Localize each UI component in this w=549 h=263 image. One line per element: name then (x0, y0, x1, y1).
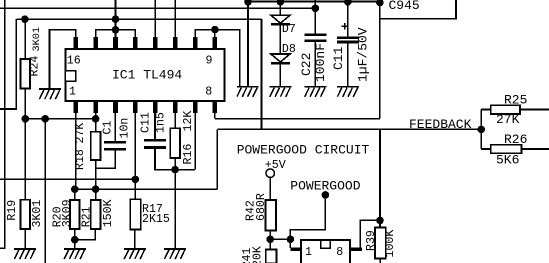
resistor R21 (91, 200, 101, 229)
wire H1 to R17 (134, 179, 136, 199)
resistor R39 (375, 227, 386, 258)
wire H2 horizontal y=189.2 (75, 188, 218, 190)
wire R25 left lead (481, 109, 491, 111)
capacitor C22 (304, 34, 326, 43)
wire pin4 down to H1 (134, 113, 136, 179)
resistor R41 (266, 250, 277, 263)
svg-text:IC1 TL494: IC1 TL494 (112, 68, 182, 83)
wire D feedback horizontal (217, 128, 481, 130)
resistor R26 (491, 145, 522, 154)
wire R18 junction down to H2 (95, 168, 97, 189)
wire R24 column top (24, 19, 26, 59)
wire pin12 vertical to top (154, 0, 156, 37)
svg-text:680R: 680R (255, 193, 268, 221)
svg-text:8: 8 (205, 85, 212, 98)
wire pin8 down (214, 113, 216, 119)
wire pin3 to C1 (114, 113, 116, 141)
node wire E pin2 (92, 115, 100, 123)
svg-text:3K01: 3K01 (31, 200, 44, 228)
svg-text:2K15: 2K15 (142, 213, 170, 226)
IC1 pin stubs bottom (74, 101, 218, 114)
ground C11 (337, 86, 359, 97)
node bridge1 (112, 26, 120, 34)
wire pin16 to ground (50, 30, 76, 89)
wire C11 column top (347, 2, 349, 37)
wire feedback column vertical (480, 110, 482, 150)
node wire E x45 (41, 115, 49, 123)
wire x=16 vertical to left exit (0, 19, 16, 109)
op-amp U2 comparator body (301, 240, 350, 263)
node wire B x115 (112, 15, 120, 23)
svg-text:C945: C945 (389, 0, 420, 13)
wire R20 top (74, 189, 76, 200)
ground pin16 (39, 88, 61, 99)
wire x=248 top to ground (247, 2, 249, 87)
resistor R24 (21, 59, 31, 89)
wire R20 bottom (74, 229, 76, 240)
wire pin2 to R18 (95, 113, 97, 132)
op-amp IC1 TL494 body (65, 49, 224, 101)
wire x=380 vertical (379, 2, 381, 119)
svg-text:R39: R39 (365, 230, 378, 251)
node powergood label (322, 191, 330, 199)
wire C pin8 feedback riser (215, 118, 380, 120)
wire pin5 to C1n5 (154, 113, 156, 139)
svg-text:R24: R24 (29, 56, 42, 77)
svg-text:8: 8 (336, 246, 343, 259)
svg-text:100K: 100K (384, 230, 397, 258)
wire bridge pins 10-9 (195, 30, 240, 87)
wire R42 bottom (269, 231, 271, 240)
svg-text:27K: 27K (74, 123, 87, 144)
wire y=19 to top right exit (380, 0, 456, 19)
wire pin7 down to wire G (194, 113, 196, 170)
ground D8 (269, 86, 291, 97)
wire R21 bottom joins R20 (75, 229, 96, 240)
wire R21 top (95, 189, 97, 200)
node H2 R21 (92, 185, 100, 193)
svg-text:3K09: 3K09 (61, 199, 74, 227)
wire R19 to ground (24, 229, 26, 249)
ground R16 net (164, 248, 186, 259)
node R24 top (21, 15, 29, 23)
node R20 R21 bottom (71, 236, 79, 244)
svg-text:1µF/50V: 1µF/50V (356, 27, 371, 82)
wire C22 to ground (314, 42, 316, 86)
node wire E left (22, 115, 30, 123)
resistor R20 (70, 200, 80, 229)
IC1 pin stubs top (74, 37, 218, 50)
node R42 bottom (266, 236, 274, 244)
svg-text:16: 16 (67, 54, 81, 67)
node feedback (477, 126, 485, 134)
svg-text:POWERGOOD: POWERGOOD (290, 178, 360, 193)
svg-text:9: 9 (206, 54, 213, 67)
wire x=45 to bottom edge (44, 119, 46, 263)
wire R25 right lead (520, 109, 549, 111)
wire R26 left lead (481, 148, 491, 150)
IC1 labels (67, 54, 213, 98)
svg-text:1: 1 (305, 246, 312, 259)
node wire A C22 (312, 5, 320, 13)
wire pin1 down to H2 (75, 113, 77, 189)
wire C22 column top (314, 0, 316, 34)
wire R17 to ground (134, 230, 136, 249)
wire pin14 stub to bridge (115, 30, 117, 37)
wire comparator pin8 riser (360, 220, 380, 248)
wire R39 bottom (379, 259, 381, 263)
wire pin6 to R16 (174, 113, 176, 128)
wire powergood bus (270, 238, 290, 240)
wire bridge pins 15-14-13 (96, 30, 136, 37)
capacitor C1 (104, 141, 126, 151)
node top C11 (344, 0, 352, 6)
svg-text:27K: 27K (496, 112, 520, 127)
resistor R19 (21, 200, 31, 229)
ground R17 (124, 248, 146, 259)
node bridge2 pin9 (211, 26, 219, 34)
node top x248 (244, 0, 252, 6)
node R39 top (376, 217, 384, 225)
svg-text:D7: D7 (282, 23, 296, 36)
node H1 R17 (132, 176, 140, 184)
wire C11 to ground (347, 43, 349, 86)
wire R16 bottom (174, 158, 176, 170)
svg-text:C22: C22 (299, 53, 314, 76)
wire powergood label riser (290, 195, 325, 239)
node top D7 (277, 0, 285, 6)
wire left vertical x=4.6 (0, 0, 5, 248)
wire R26 right lead (522, 148, 549, 150)
svg-text:R18: R18 (74, 149, 87, 170)
diode D8 (271, 54, 290, 62)
resistor R18 (91, 132, 101, 160)
svg-text:C1: C1 (102, 121, 115, 135)
svg-text:R25: R25 (504, 93, 527, 108)
wire H1 horizontal y=179.4 (0, 178, 135, 180)
comparator pin 8 stub (350, 248, 362, 251)
svg-text:10n: 10n (119, 118, 132, 139)
capacitor C11 1n5 (144, 139, 166, 149)
svg-text:R19: R19 (6, 200, 19, 221)
diode D7 (271, 15, 290, 23)
wire x=217 vertical (216, 129, 218, 189)
node H2 R20 (71, 185, 79, 193)
svg-text:R21: R21 (81, 206, 94, 227)
svg-text:150K: 150K (102, 199, 115, 227)
wire R24 to R19 (24, 89, 26, 200)
wire junction to ground (74, 240, 76, 249)
wire R18 bottom junction (96, 150, 116, 168)
wire C1n5 bottom to wire G (155, 149, 195, 170)
ground IC right (237, 86, 259, 97)
svg-text:5K6: 5K6 (496, 153, 519, 168)
svg-text:1: 1 (69, 85, 76, 98)
wire diode chain top (279, 2, 281, 16)
svg-text:100nF: 100nF (313, 43, 328, 82)
svg-text:C11: C11 (140, 112, 153, 133)
wire +5V to R42 (269, 177, 271, 200)
ground C22 (304, 86, 326, 97)
wire pin9 stub to bridge (214, 30, 216, 37)
wire A horizontal y=8 (0, 7, 315, 9)
wire pin11 vertical to top (174, 0, 176, 37)
svg-text:3K01: 3K01 (32, 27, 43, 51)
comparator pin 1 stub (291, 248, 301, 251)
svg-text:POWERGOOD CIRCUIT: POWERGOOD CIRCUIT (237, 142, 370, 157)
ground R19 (14, 248, 36, 259)
wire x=261.5 vertical (261, 19, 263, 129)
wire x=115.5 vertical to top (115, 0, 117, 30)
wire to comparator pin1 (289, 239, 291, 248)
resistor R42 (265, 200, 276, 231)
svg-text:FEEDBACK: FEEDBACK (409, 117, 472, 132)
svg-text:12K: 12K (182, 111, 195, 132)
wire E horizontal y=118.8 (25, 118, 95, 120)
resistor R25 (491, 105, 520, 114)
svg-text:R16: R16 (182, 144, 195, 165)
resistor R17 (130, 199, 140, 229)
svg-text:R26: R26 (504, 132, 527, 147)
node wire G R16 (171, 166, 179, 174)
node comparator pin1 riser (287, 236, 295, 244)
ground R20 R21 (64, 248, 86, 259)
wire R39 top vertical (379, 129, 381, 227)
wire D8 to ground (279, 65, 281, 87)
svg-text:D8: D8 (282, 43, 296, 56)
svg-text:1n5: 1n5 (155, 112, 168, 133)
wire top net C945 (245, 1, 382, 3)
node top x380 (376, 0, 384, 6)
svg-text:C11: C11 (331, 46, 346, 70)
capacitor C11 electrolytic (337, 37, 359, 44)
wire D7 to D8 (279, 26, 281, 54)
svg-text:20K: 20K (252, 246, 265, 263)
wire R41 top (269, 239, 271, 249)
wire R16 junction to ground (174, 170, 176, 249)
wire B horizontal y=19 (16, 18, 261, 20)
resistor R16 (170, 128, 180, 158)
+5V terminal circle (266, 169, 275, 178)
